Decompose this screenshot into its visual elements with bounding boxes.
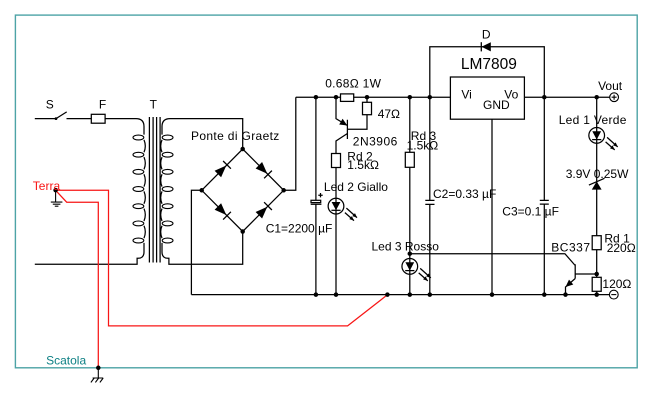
svg-text:1.5kΩ: 1.5kΩ: [347, 158, 379, 172]
svg-text:Led 3 Rosso: Led 3 Rosso: [372, 240, 440, 254]
svg-text:C3=0.1 µF: C3=0.1 µF: [502, 204, 559, 218]
svg-text:120Ω: 120Ω: [602, 277, 631, 291]
svg-text:1.5kΩ: 1.5kΩ: [407, 139, 439, 153]
svg-text:220Ω: 220Ω: [607, 241, 636, 255]
svg-text:Led 2 Giallo: Led 2 Giallo: [324, 180, 388, 194]
svg-text:Ponte di Graetz: Ponte di Graetz: [191, 129, 280, 143]
svg-text:2N3906: 2N3906: [353, 135, 398, 149]
svg-text:S: S: [46, 98, 54, 112]
svg-text:LM7809: LM7809: [461, 56, 517, 73]
svg-text:Vi: Vi: [461, 88, 471, 102]
svg-text:D: D: [482, 28, 491, 42]
svg-text:0.68Ω 1W: 0.68Ω 1W: [325, 77, 381, 91]
svg-text:Scatola: Scatola: [46, 353, 86, 367]
svg-text:3.9V 0.25W: 3.9V 0.25W: [566, 167, 629, 181]
svg-text:T: T: [150, 98, 158, 112]
svg-text:GND: GND: [483, 98, 510, 112]
svg-text:Terra: Terra: [33, 179, 61, 193]
svg-text:F: F: [99, 98, 106, 112]
svg-text:Led 1 Verde: Led 1 Verde: [559, 113, 627, 127]
svg-text:BC337: BC337: [551, 240, 590, 254]
svg-text:Vout: Vout: [598, 79, 623, 93]
svg-text:47Ω: 47Ω: [378, 107, 400, 121]
svg-text:C1=2200 µF: C1=2200 µF: [266, 222, 333, 236]
svg-text:C2=0.33 µF: C2=0.33 µF: [433, 187, 496, 201]
